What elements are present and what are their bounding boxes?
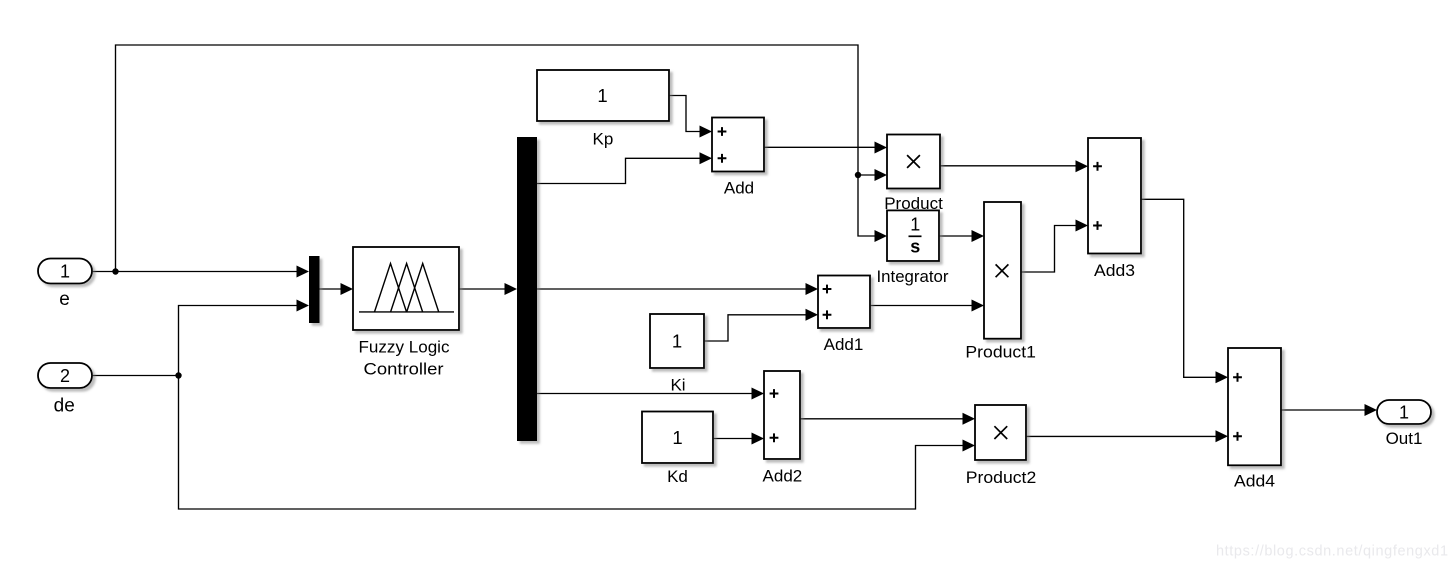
svg-text:1: 1 (60, 262, 70, 282)
svg-text:https://blog.csdn.net/qingfeng: https://blog.csdn.net/qingfengxd1 (1216, 544, 1449, 560)
svg-text:2: 2 (60, 366, 70, 386)
svg-text:de: de (54, 396, 75, 417)
svg-text:1: 1 (672, 427, 682, 448)
svg-text:Out1: Out1 (1386, 429, 1423, 448)
svg-text:Product1: Product1 (965, 343, 1036, 362)
svg-text:1: 1 (597, 85, 607, 106)
svg-text:1: 1 (910, 215, 920, 235)
svg-text:Add2: Add2 (763, 467, 803, 486)
svg-text:Controller: Controller (364, 359, 444, 378)
svg-text:Integrator: Integrator (877, 267, 949, 286)
svg-text:Add3: Add3 (1094, 261, 1135, 280)
svg-text:1: 1 (1399, 403, 1409, 423)
svg-text:1: 1 (672, 331, 682, 352)
svg-text:s: s (910, 236, 920, 256)
svg-text:Add1: Add1 (824, 335, 864, 354)
svg-text:Add4: Add4 (1234, 472, 1275, 491)
svg-text:Kd: Kd (667, 467, 688, 486)
svg-text:Fuzzy Logic: Fuzzy Logic (359, 337, 451, 356)
svg-text:Product: Product (884, 194, 943, 213)
svg-text:Ki: Ki (670, 376, 685, 395)
svg-text:Kp: Kp (593, 130, 614, 149)
svg-text:Add: Add (724, 179, 754, 198)
svg-text:Product2: Product2 (966, 468, 1037, 487)
svg-text:e: e (59, 289, 70, 310)
